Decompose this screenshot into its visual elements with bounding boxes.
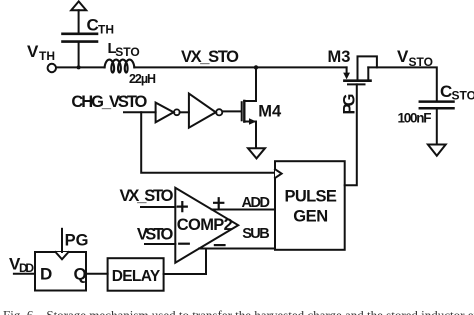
svg-text:M3: M3 — [328, 48, 351, 66]
inverter U2 triangle — [189, 94, 216, 128]
wire CHG_VSTO branch to pulse gen clock — [141, 112, 274, 173]
inverter U2 bubble — [216, 109, 222, 115]
wire inverter U1 to U2 — [180, 111, 189, 113]
svg-text:VSTO: VSTO — [137, 225, 174, 243]
wire M3 drain to V_STO — [368, 67, 437, 101]
wire VSTO lead into COMP2 - — [145, 243, 175, 245]
ground below C_STO — [428, 145, 446, 156]
svg-text:VX_STO: VX_STO — [181, 48, 239, 66]
transistor M4 channel bar — [243, 101, 245, 122]
transistor M3 gate bar — [348, 83, 365, 85]
svg-text:M4: M4 — [258, 103, 282, 121]
capacitor C_STO bottom plate — [420, 107, 454, 110]
wire DFF Q to DELAY — [86, 273, 108, 275]
block text PULSE GEN — [285, 188, 337, 226]
transistor M4 source arrow — [249, 118, 256, 124]
svg-text:TH: TH — [98, 23, 114, 37]
transistor M3 drain lead — [367, 67, 369, 80]
svg-text:GEN: GEN — [293, 208, 328, 226]
block PULSE GEN box — [275, 161, 345, 250]
transistor M4 gate bar — [241, 102, 243, 120]
capacitor C_TH top plate — [63, 32, 98, 35]
label V_DD — [9, 254, 34, 275]
label V_TH — [27, 42, 55, 63]
svg-text:DD: DD — [19, 261, 34, 275]
terminal V_TH circle — [48, 64, 56, 72]
label L_STO — [108, 40, 140, 59]
wire V_TH terminal to inductor — [56, 66, 104, 68]
transistor M3 source lead with arrow — [346, 67, 348, 73]
svg-text:VX_STO: VX_STO — [120, 187, 174, 205]
node junction VX_STO / C_TH — [77, 65, 81, 69]
plus sign outer — [214, 198, 223, 207]
inverter U1 bubble — [174, 109, 180, 115]
wire inverter U2 to M4 gate — [222, 110, 241, 112]
svg-text:V: V — [397, 47, 409, 66]
svg-text:STO: STO — [409, 55, 433, 69]
wire inductor to M3 source (VX_STO net) — [134, 66, 346, 68]
wire arrow to C_TH top — [78, 10, 80, 33]
minus sign inner — [179, 243, 189, 245]
transistor M3 body tie — [358, 56, 377, 80]
svg-text:PG: PG — [341, 94, 359, 115]
comparator COMP2 triangle — [175, 188, 238, 263]
svg-text:C: C — [87, 16, 99, 35]
block DFF box — [35, 252, 86, 291]
svg-text:STO: STO — [115, 45, 139, 59]
svg-text:D: D — [40, 264, 52, 283]
wire C_STO to ground — [436, 109, 438, 144]
inductor L_STO coil — [105, 60, 135, 73]
label C_STO — [440, 82, 474, 103]
svg-text:PG: PG — [65, 231, 89, 249]
wire SUB output to pulse gen — [199, 248, 275, 250]
supply arrow above C_TH — [71, 1, 86, 10]
transistor M3 gate wire PG down to pulse gen — [345, 84, 357, 185]
node junction VX_STO / M4 drain — [254, 65, 258, 69]
DFF clock wedge — [56, 252, 69, 259]
capacitor C_TH bottom plate — [63, 40, 98, 43]
svg-text:ADD: ADD — [242, 195, 271, 211]
svg-text:100nF: 100nF — [398, 111, 432, 126]
plus sign inner — [178, 202, 187, 211]
label V_STO — [397, 47, 433, 69]
label C_TH — [87, 16, 115, 37]
svg-text:STO: STO — [452, 89, 474, 103]
capacitor C_STO top plate — [420, 100, 454, 103]
svg-text:CHG_VSTO: CHG_VSTO — [71, 93, 147, 111]
pulse gen clock wedge — [275, 169, 282, 178]
block DELAY box — [108, 258, 164, 291]
svg-text:PULSE: PULSE — [285, 188, 337, 206]
transistor M3 channel bar — [344, 79, 370, 82]
svg-text:Fig. 6. Storage mechanism us: Fig. 6. Storage mechanism used to transf… — [3, 308, 474, 315]
inverter U1 triangle — [156, 103, 174, 123]
svg-text:TH: TH — [39, 49, 55, 63]
svg-text:V: V — [27, 42, 39, 61]
transistor M4 source lead — [244, 122, 256, 148]
wire delay riser to SUB line — [164, 249, 206, 275]
wire CHG_VSTO lead — [124, 111, 156, 113]
minus sign outer — [215, 244, 225, 246]
ground below M4 — [248, 148, 265, 158]
svg-text:Q: Q — [74, 264, 87, 283]
svg-text:COMP2: COMP2 — [177, 216, 233, 234]
svg-text:22µH: 22µH — [129, 72, 156, 86]
transistor M4 drain lead from VX_STO — [244, 67, 256, 101]
wire ADD output to pulse gen — [212, 209, 275, 211]
svg-text:DELAY: DELAY — [112, 268, 161, 285]
wire PG into DFF clock — [61, 229, 63, 252]
wire VX_STO lead into COMP2 + — [141, 206, 175, 208]
svg-text:C: C — [440, 82, 452, 101]
wire VDD into DFF D — [14, 273, 35, 275]
svg-text:SUB: SUB — [242, 226, 270, 242]
wire C_TH bottom to V_TH rail — [78, 43, 80, 68]
